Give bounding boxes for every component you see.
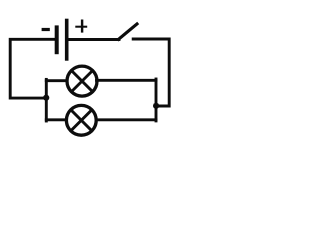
wire battery positive plate to switch pivot — [69, 38, 120, 41]
lamp L1 cross — [71, 71, 92, 92]
junction dot left — [43, 95, 49, 101]
battery positive plate (long) — [65, 19, 69, 61]
wire top branch right (lamp L1 to bus) — [97, 79, 157, 82]
junction dot right — [153, 103, 159, 109]
wire top branch left (bus to lamp L1) — [46, 79, 67, 82]
wire bottom branch right (lamp L2 to bus) — [96, 118, 156, 121]
wire left bus of parallel lamp branches — [45, 79, 48, 121]
battery negative plate (short) — [55, 25, 59, 54]
lamp L2 cross — [71, 110, 92, 131]
wire from battery negative plate to top-left corner, down left side, to left junction — [10, 39, 55, 98]
switch S1 open lever — [119, 24, 138, 39]
wire switch contact to top-right corner, down right side, to right junction — [133, 39, 169, 106]
lamp L1 circle — [67, 66, 97, 96]
battery minus label — [42, 28, 50, 31]
battery plus label — [75, 26, 87, 28]
lamp L2 circle — [66, 105, 96, 135]
wire right bus of parallel lamp branches — [155, 79, 158, 121]
wire bottom branch left (bus to lamp L2) — [46, 118, 66, 121]
